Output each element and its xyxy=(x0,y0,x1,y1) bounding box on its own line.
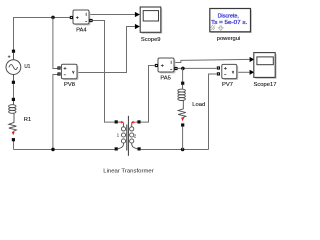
wire bottom rail secondary xyxy=(141,149,209,151)
wire U1 bottom to R1 top xyxy=(13,84,15,98)
transformer polarity arrow winding 2 xyxy=(134,121,136,123)
svg-text:2: 2 xyxy=(134,133,137,138)
svg-text:Discrete,: Discrete, xyxy=(218,13,240,19)
svg-text:PA5: PA5 xyxy=(160,75,171,81)
transformer port winding 2 plus xyxy=(137,120,140,123)
wire PV8 minus branch down to bottom rail xyxy=(53,75,58,150)
svg-text:Linear Transformer: Linear Transformer xyxy=(103,168,154,174)
svg-text:R1: R1 xyxy=(24,117,31,123)
transformer port winding 1 plus xyxy=(115,120,118,123)
transformer core xyxy=(126,125,128,151)
wire R1 bottom to bottom rail xyxy=(13,141,15,149)
svg-text:powergui: powergui xyxy=(217,36,241,42)
scope Scope9 xyxy=(140,7,162,43)
wire PA5 signal output to Scope17 input 1 xyxy=(174,57,255,63)
powergui block xyxy=(210,9,252,42)
svg-text:Scope9: Scope9 xyxy=(141,37,161,43)
wire PV7 minus down to bottom rail secondary xyxy=(209,74,217,150)
wire bottom rail primary xyxy=(14,149,115,151)
transformer polarity arrow winding 1 xyxy=(119,121,121,123)
resistor Load series RL branch xyxy=(178,82,205,127)
current measurement PA4 xyxy=(70,10,93,33)
transformer port winding 2 minus xyxy=(138,147,141,150)
svg-text:PA4: PA4 xyxy=(76,27,87,33)
wire Load bottom down to bottom rail secondary xyxy=(182,127,184,150)
wire PV8 plus branch down from top rail xyxy=(53,18,58,69)
svg-text:Ts = 5e-07 s.: Ts = 5e-07 s. xyxy=(211,20,247,26)
node junction of PA5 output with Load branch xyxy=(181,67,185,71)
transformer port winding 1 minus xyxy=(115,147,118,150)
wire PA4 electrical output down to transformer winding 1 xyxy=(93,21,115,123)
resistor R1 series RL branch xyxy=(9,98,32,142)
svg-text:Scope17: Scope17 xyxy=(254,82,277,88)
voltage measurement PV8 xyxy=(57,64,78,88)
node junction of top rail with PV8 plus branch xyxy=(51,16,55,20)
node junction of Load bottom with bottom rail secondary xyxy=(181,148,185,152)
wire PV8 signal output to Scope9 input 2 xyxy=(77,24,140,73)
wire PV7 signal output to Scope17 input 2 xyxy=(237,70,254,75)
node junction of bottom rail with PV8 minus branch xyxy=(51,148,55,152)
svg-text:PV8: PV8 xyxy=(64,82,75,88)
voltage measurement PV7 xyxy=(217,64,238,87)
wire transformer winding 2 up to PA5 input xyxy=(141,66,155,123)
svg-text:Load: Load xyxy=(192,102,205,108)
wire PA5 electrical output to PV7 plus input xyxy=(178,67,217,69)
transformer winding 2 coil xyxy=(130,127,134,131)
svg-text:U1: U1 xyxy=(24,64,30,70)
source U1 AC voltage source xyxy=(6,50,30,84)
transformer Linear Transformer xyxy=(103,116,154,175)
svg-text:PV7: PV7 xyxy=(222,82,233,88)
transformer winding 1 coil xyxy=(121,127,125,131)
wire top rail from U1 up and right to PA4 xyxy=(14,18,71,51)
current measurement PA5 xyxy=(155,58,178,81)
wire junction down to Load top xyxy=(182,68,184,81)
scope Scope17 xyxy=(254,53,277,88)
wire PA4 signal output to Scope9 input 1 xyxy=(89,12,140,17)
svg-text:1: 1 xyxy=(117,133,120,138)
